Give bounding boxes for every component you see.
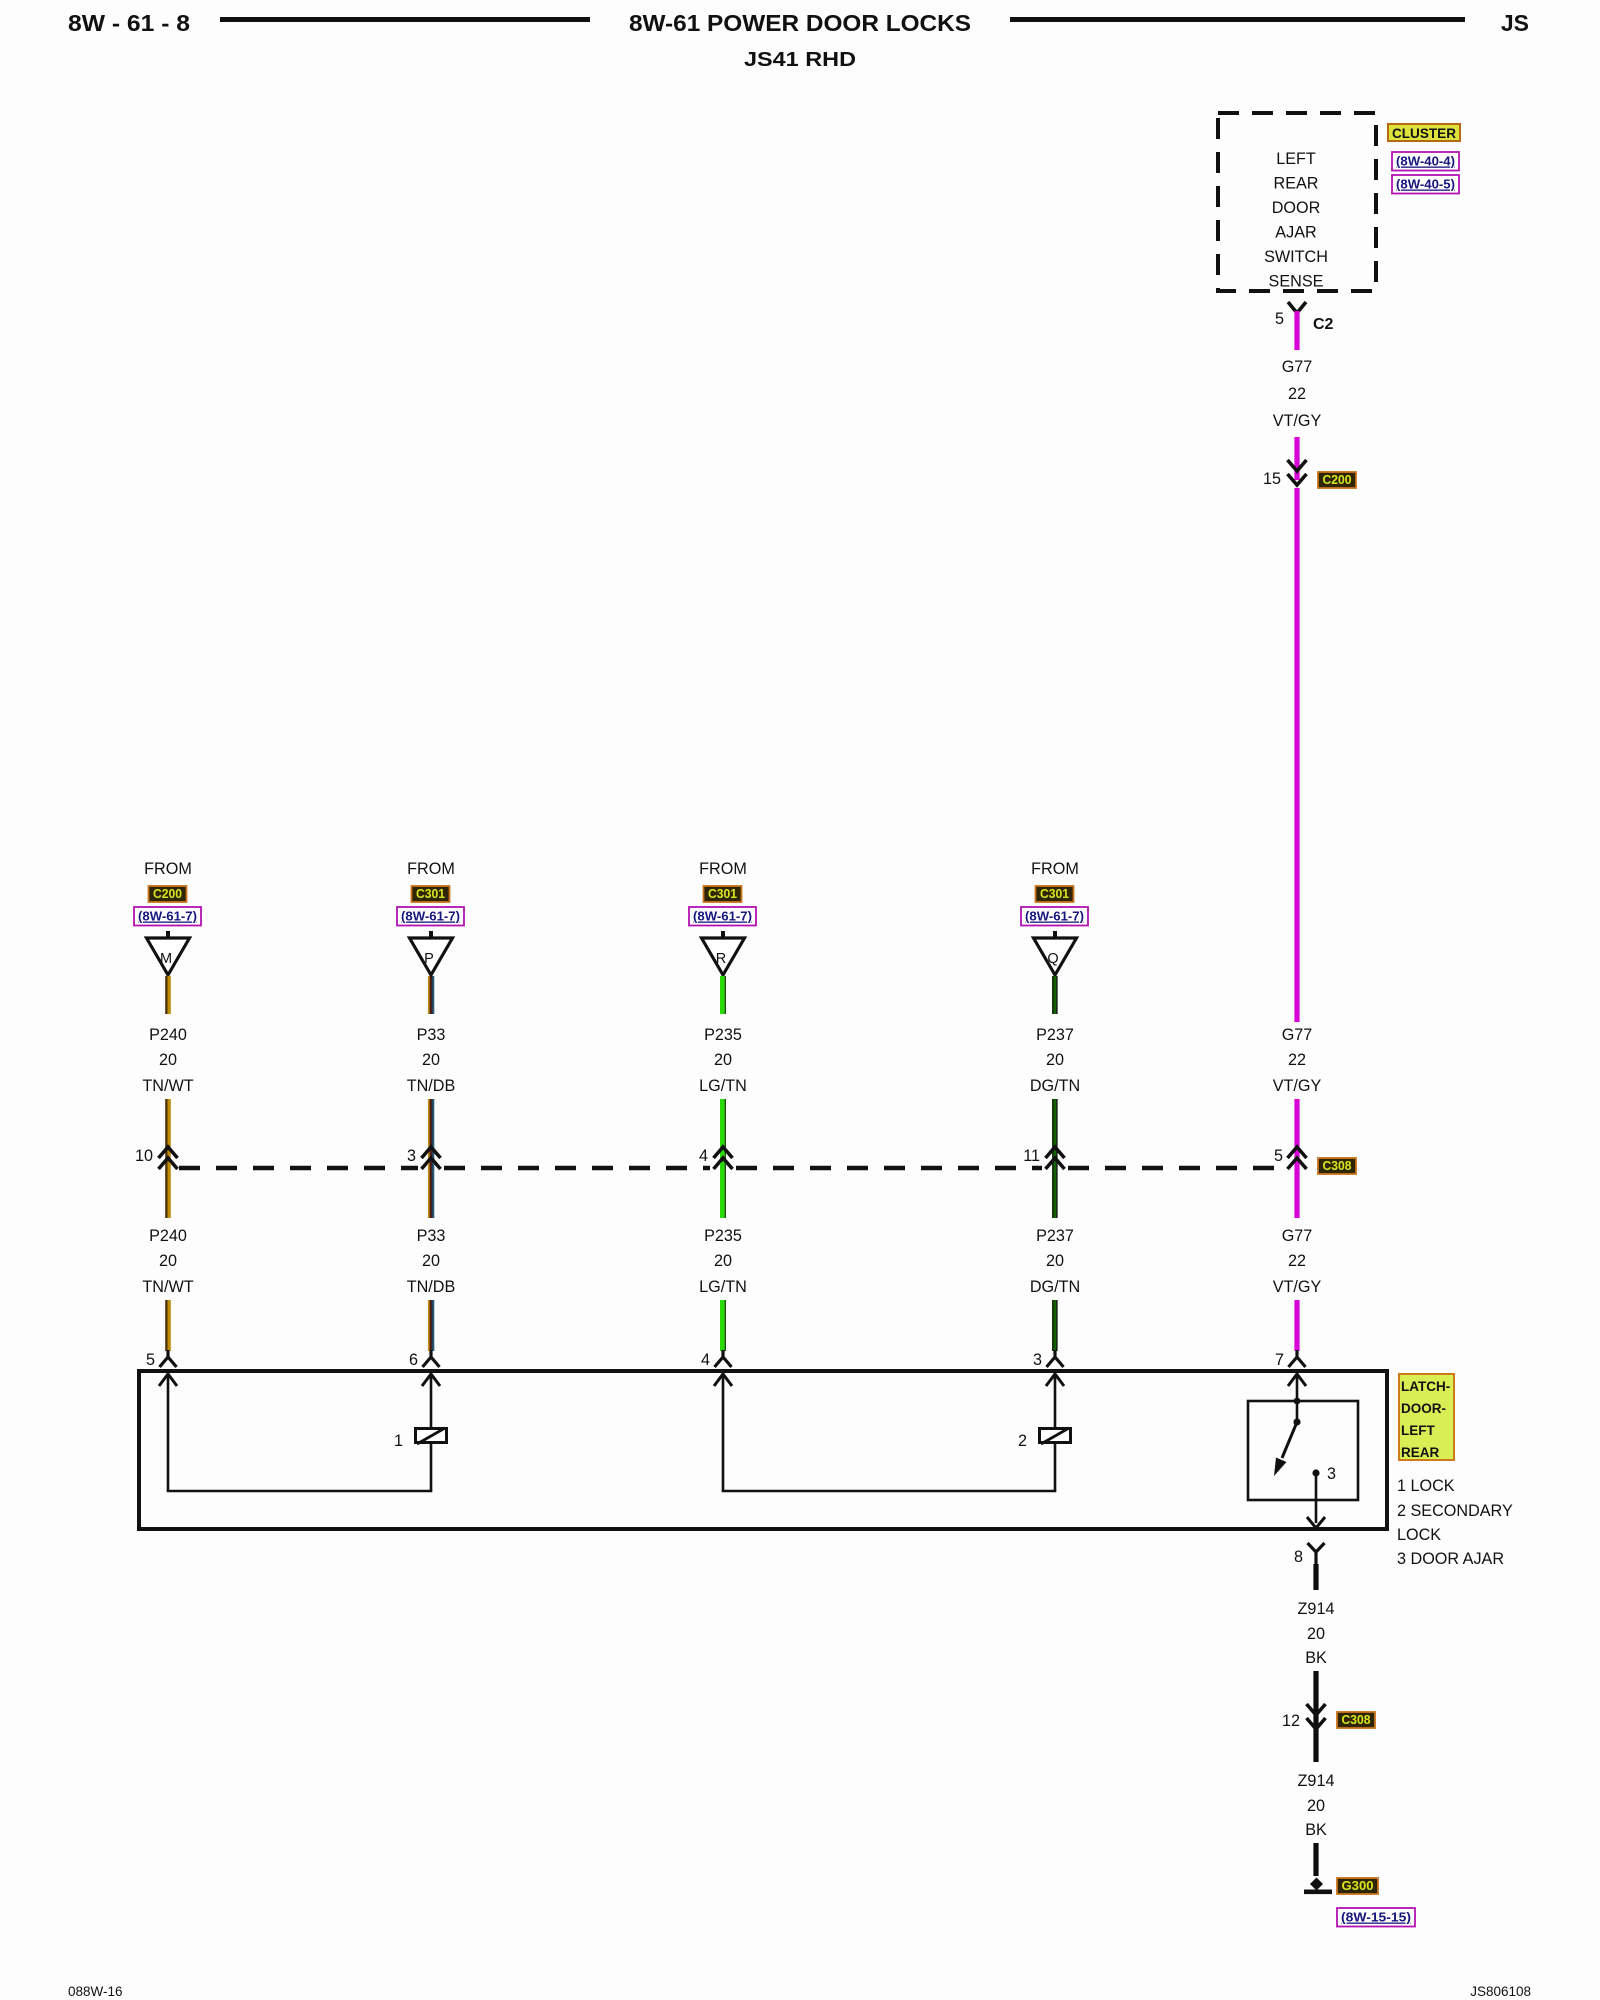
latch pin 3 (col Q) — [1047, 1350, 1064, 1367]
svg-text:3: 3 — [1033, 1351, 1042, 1369]
C200 label — [1318, 472, 1356, 488]
LATCH-DOOR-LEFT REAR label — [1399, 1374, 1454, 1460]
svg-text:20: 20 — [422, 1252, 440, 1270]
svg-text:22: 22 — [1288, 385, 1306, 403]
svg-text:LG/TN: LG/TN — [699, 1278, 747, 1296]
svg-text:C2: C2 — [1313, 316, 1334, 333]
wire G77 22 VT/GY upper segment — [1294, 311, 1299, 350]
svg-text:SENSE: SENSE — [1269, 273, 1324, 291]
C308 pass-through connector pin 10 (col M) — [159, 1147, 178, 1158]
G77 C308 connector pin 5 — [1288, 1147, 1307, 1158]
svg-text:C200: C200 — [153, 886, 182, 901]
svg-text:4: 4 — [701, 1351, 710, 1369]
wire into latch (col P) — [428, 1300, 430, 1351]
svg-text:TN/DB: TN/DB — [407, 1278, 456, 1296]
connector C308 pin 12 (double chevron down) — [1307, 1704, 1326, 1715]
svg-text:G77: G77 — [1282, 1026, 1313, 1044]
svg-text:TN/DB: TN/DB — [407, 1077, 456, 1095]
wire Z914 upper stub — [1313, 1564, 1318, 1590]
wire below C308 (col Q) — [1052, 1163, 1053, 1218]
svg-text:P33: P33 — [417, 1227, 446, 1245]
latch internal lead pin5 — [159, 1374, 177, 1386]
svg-text:C308: C308 — [1323, 1158, 1352, 1173]
junction dot at switch box top — [1294, 1398, 1301, 1405]
svg-text:22: 22 — [1288, 1051, 1306, 1069]
wire Z914 to C308 — [1313, 1671, 1318, 1762]
svg-text:P237: P237 — [1036, 1026, 1074, 1044]
svg-text:Z914: Z914 — [1298, 1600, 1335, 1618]
svg-text:G300: G300 — [1342, 1878, 1374, 1893]
svg-text:CLUSTER: CLUSTER — [1392, 125, 1456, 141]
svg-text:DOOR: DOOR — [1272, 199, 1321, 217]
svg-text:20: 20 — [714, 1252, 732, 1270]
link 8W-61-7 (col P) — [397, 907, 464, 926]
svg-text:P33: P33 — [417, 1026, 446, 1044]
svg-text:JS806108: JS806108 — [1470, 1984, 1531, 1999]
svg-text:20: 20 — [422, 1051, 440, 1069]
svg-text:20: 20 — [1046, 1051, 1064, 1069]
svg-text:REAR: REAR — [1274, 175, 1319, 193]
svg-text:Z914: Z914 — [1298, 1772, 1335, 1790]
wire to C308 line (col M) — [165, 1099, 167, 1163]
wire to C308 line (col P) — [428, 1099, 430, 1163]
svg-text:(8W-61-7): (8W-61-7) — [1025, 909, 1084, 924]
svg-text:LG/TN: LG/TN — [699, 1077, 747, 1095]
svg-text:(8W-40-5): (8W-40-5) — [1396, 177, 1455, 192]
C301 label (col R) — [704, 886, 742, 902]
svg-text:C200: C200 — [1323, 472, 1352, 487]
off-page triangle R — [721, 931, 725, 938]
ground G300 symbol — [1310, 1878, 1323, 1891]
svg-text:4: 4 — [699, 1147, 708, 1165]
link 8W-61-7 (col R) — [689, 907, 756, 926]
svg-text:6: 6 — [409, 1351, 418, 1369]
svg-text:1: 1 — [394, 1432, 403, 1450]
svg-text:(8W-61-7): (8W-61-7) — [138, 909, 197, 924]
svg-text:20: 20 — [1307, 1797, 1325, 1815]
switch blade with arrowhead — [1282, 1422, 1297, 1458]
svg-text:8W-61 POWER DOOR LOCKS: 8W-61 POWER DOOR LOCKS — [629, 10, 971, 36]
svg-text:Q: Q — [1047, 951, 1058, 967]
svg-text:C301: C301 — [416, 886, 445, 901]
svg-text:8W - 61 - 8: 8W - 61 - 8 — [68, 10, 190, 36]
long G77 wire down to C308 area — [1294, 488, 1299, 1022]
wire into latch (col Q) — [1052, 1300, 1053, 1351]
latch pin 6 (col P) — [423, 1350, 440, 1367]
latch internal lead pin7 — [1288, 1374, 1306, 1386]
svg-text:20: 20 — [1046, 1252, 1064, 1270]
svg-text:BK: BK — [1305, 1649, 1327, 1667]
latch internal lead pin6 — [422, 1374, 440, 1386]
bottom rail 5-6 — [167, 1490, 433, 1493]
svg-text:VT/GY: VT/GY — [1273, 412, 1322, 430]
C308 label (lower) — [1337, 1712, 1375, 1728]
wire Z914 to ground — [1313, 1843, 1318, 1876]
svg-text:20: 20 — [1307, 1625, 1325, 1643]
svg-text:7: 7 — [1275, 1351, 1284, 1369]
svg-text:P235: P235 — [704, 1227, 742, 1245]
header rule right — [1010, 17, 1465, 22]
off-page triangle P — [429, 931, 433, 938]
bottom rail 4-3 — [722, 1490, 1057, 1493]
latch pin 5 (col M) — [160, 1350, 177, 1367]
wire below C308 (col P) — [428, 1163, 430, 1218]
wire segment to C200 — [1294, 437, 1299, 480]
svg-text:088W-16: 088W-16 — [68, 1984, 123, 1999]
G300 label — [1337, 1878, 1378, 1894]
C200 label (col M) — [149, 886, 187, 902]
wire stub below triangle (col R) — [720, 976, 725, 1014]
svg-text:5: 5 — [146, 1351, 155, 1369]
C308 pass-through connector pin 3 (col P) — [422, 1147, 441, 1158]
svg-text:P240: P240 — [149, 1227, 187, 1245]
wire stub below triangle (col P) — [428, 976, 430, 1014]
svg-text:DG/TN: DG/TN — [1030, 1278, 1080, 1296]
svg-text:11: 11 — [1023, 1147, 1040, 1165]
svg-text:3: 3 — [407, 1147, 416, 1165]
lead from contact 3 to pin 8 — [1315, 1473, 1318, 1523]
svg-text:(8W-61-7): (8W-61-7) — [693, 909, 752, 924]
wire into latch (col M) — [165, 1300, 167, 1351]
svg-text:DG/TN: DG/TN — [1030, 1077, 1080, 1095]
C308 in-line connector dashed line — [179, 1166, 418, 1171]
svg-text:22: 22 — [1288, 1252, 1306, 1270]
svg-text:SWITCH: SWITCH — [1264, 248, 1328, 266]
wire below C308 (col R) — [720, 1163, 725, 1218]
svg-text:VT/GY: VT/GY — [1273, 1278, 1322, 1296]
svg-text:8: 8 — [1294, 1548, 1303, 1566]
svg-text:FROM: FROM — [144, 860, 192, 878]
svg-text:(8W-15-15): (8W-15-15) — [1341, 1910, 1411, 1925]
wire into latch (col R) — [720, 1300, 725, 1351]
switch pivot dot — [1293, 1418, 1300, 1425]
wire stub below triangle (col M) — [165, 976, 167, 1014]
svg-text:AJAR: AJAR — [1275, 224, 1316, 242]
svg-text:C308: C308 — [1342, 1712, 1371, 1727]
svg-text:VT/GY: VT/GY — [1273, 1077, 1322, 1095]
svg-text:LOCK: LOCK — [1397, 1526, 1441, 1544]
svg-text:M: M — [160, 951, 172, 967]
svg-text:FROM: FROM — [1031, 860, 1079, 878]
C308 label (right of dashed line) — [1318, 1158, 1356, 1174]
C308 pass-through connector pin 11 (col Q) — [1046, 1147, 1065, 1158]
latch internal lead pin4 — [714, 1374, 732, 1386]
svg-text:5: 5 — [1275, 310, 1284, 328]
cluster dashed box — [1218, 113, 1376, 291]
wire below C308 (col M) — [165, 1163, 167, 1218]
svg-text:15: 15 — [1263, 470, 1281, 488]
svg-text:(8W-61-7): (8W-61-7) — [401, 909, 460, 924]
CLUSTER label — [1388, 124, 1460, 141]
svg-text:LEFT: LEFT — [1401, 1423, 1435, 1438]
latch pin 8 — [1308, 1543, 1325, 1566]
svg-text:JS41 RHD: JS41 RHD — [744, 49, 856, 71]
svg-text:1 LOCK: 1 LOCK — [1397, 1477, 1455, 1495]
svg-text:LEFT: LEFT — [1276, 150, 1316, 168]
svg-text:12: 12 — [1282, 1712, 1300, 1730]
link 8W-15-15 — [1337, 1908, 1415, 1927]
svg-text:C301: C301 — [1040, 886, 1069, 901]
link 8W-40-4 — [1392, 152, 1459, 171]
link 8W-40-5 — [1392, 175, 1459, 194]
svg-text:DOOR-: DOOR- — [1401, 1401, 1446, 1416]
G77 wire into latch — [1294, 1300, 1299, 1351]
svg-text:R: R — [716, 951, 726, 967]
G77 wire above C308 — [1294, 1099, 1299, 1163]
svg-text:2: 2 — [1018, 1432, 1027, 1450]
svg-text:FROM: FROM — [699, 860, 747, 878]
link 8W-61-7 (col Q) — [1021, 907, 1088, 926]
svg-text:TN/WT: TN/WT — [142, 1077, 193, 1095]
svg-text:FROM: FROM — [407, 860, 455, 878]
wire to C308 line (col R) — [720, 1099, 725, 1163]
svg-text:(8W-40-4): (8W-40-4) — [1396, 154, 1455, 169]
C301 label (col P) — [412, 886, 450, 902]
latch pin 7 — [1289, 1350, 1306, 1367]
latch-door-left-rear outline box — [139, 1371, 1387, 1529]
svg-text:10: 10 — [135, 1147, 153, 1165]
svg-text:P235: P235 — [704, 1026, 742, 1044]
svg-text:JS: JS — [1501, 10, 1529, 36]
G77 wire below C308 — [1294, 1163, 1299, 1218]
wire stub below triangle (col Q) — [1052, 976, 1053, 1014]
svg-text:G77: G77 — [1282, 358, 1313, 376]
svg-text:20: 20 — [159, 1051, 177, 1069]
off-page triangle M — [166, 931, 170, 938]
svg-text:3: 3 — [1327, 1465, 1336, 1483]
door ajar switch box — [1248, 1401, 1358, 1500]
svg-text:20: 20 — [159, 1252, 177, 1270]
off-page triangle Q — [1053, 931, 1057, 938]
connector C2 pin 5 — [1288, 302, 1306, 313]
switch contact 3 — [1312, 1469, 1319, 1476]
svg-text:REAR: REAR — [1401, 1445, 1440, 1460]
svg-text:BK: BK — [1305, 1821, 1327, 1839]
wire to C308 line (col Q) — [1052, 1099, 1053, 1163]
svg-text:P240: P240 — [149, 1026, 187, 1044]
svg-text:C301: C301 — [708, 886, 737, 901]
svg-text:TN/WT: TN/WT — [142, 1278, 193, 1296]
svg-text:G77: G77 — [1282, 1227, 1313, 1245]
svg-text:P237: P237 — [1036, 1227, 1074, 1245]
C301 label (col Q) — [1036, 886, 1074, 902]
latch pin 4 (col R) — [715, 1350, 732, 1367]
lock motor 1 — [416, 1429, 447, 1443]
secondary lock motor 2 — [1040, 1429, 1071, 1443]
link 8W-61-7 (col M) — [134, 907, 201, 926]
svg-text:LATCH-: LATCH- — [1401, 1379, 1450, 1394]
svg-text:P: P — [424, 951, 434, 967]
svg-text:5: 5 — [1274, 1147, 1283, 1165]
connector C200 pin 15 (double chevron) — [1288, 460, 1307, 471]
svg-text:2 SECONDARY: 2 SECONDARY — [1397, 1502, 1513, 1520]
svg-text:3 DOOR AJAR: 3 DOOR AJAR — [1397, 1550, 1504, 1568]
C308 pass-through connector pin 4 (col R) — [714, 1147, 733, 1158]
svg-text:20: 20 — [714, 1051, 732, 1069]
latch internal lead pin3 — [1046, 1374, 1064, 1386]
header rule left — [220, 17, 590, 22]
